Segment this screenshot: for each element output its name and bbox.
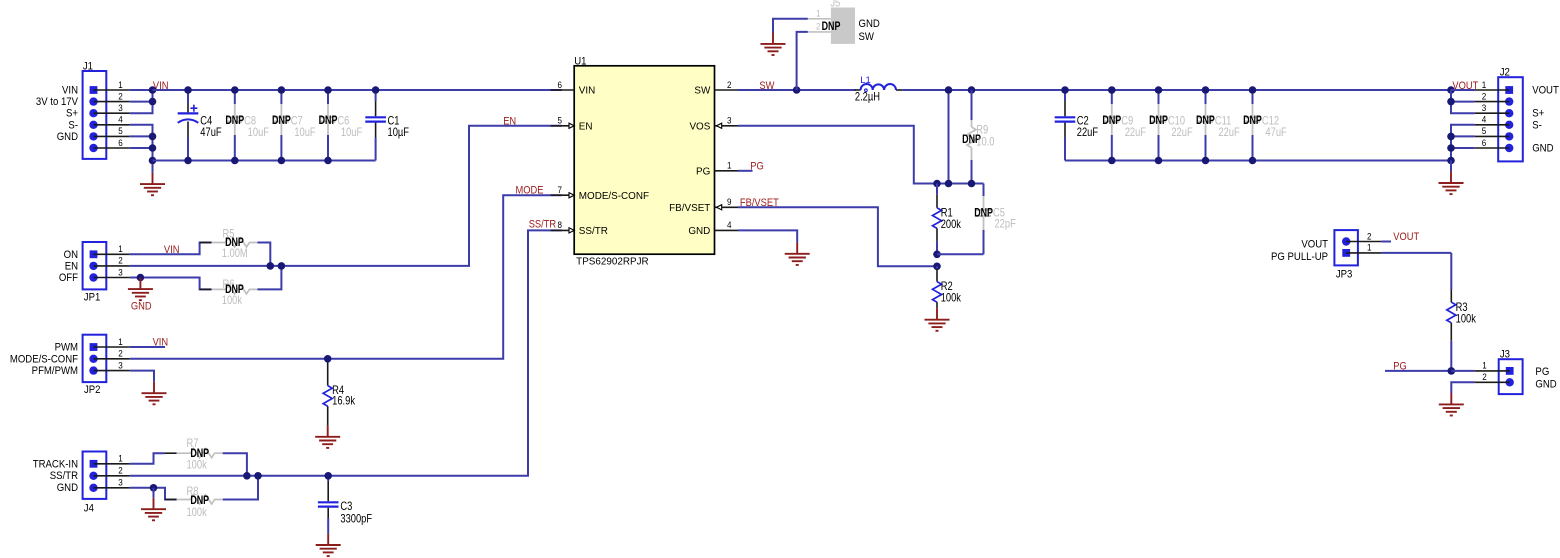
svg-text:5: 5 bbox=[118, 126, 123, 137]
svg-text:J1: J1 bbox=[83, 61, 93, 73]
node VIN net label at JP1 bbox=[164, 244, 180, 256]
JP3 side labels VOUT / PG PULL-UP bbox=[1271, 239, 1329, 263]
ground at J4 bbox=[141, 488, 166, 521]
wire SW rail L1 to J2 bbox=[902, 89, 1475, 91]
ground at R4 bbox=[315, 425, 340, 448]
junction C6 bottom bbox=[324, 157, 332, 165]
junction FB at divider bbox=[933, 263, 941, 271]
wire U1 GND pin to ground bbox=[738, 230, 797, 242]
svg-text:1: 1 bbox=[118, 336, 123, 347]
svg-text:S+: S+ bbox=[1532, 108, 1544, 120]
svg-text:100k: 100k bbox=[186, 506, 207, 519]
svg-text:VOUT: VOUT bbox=[1301, 239, 1328, 251]
junction C9 bottom bbox=[1108, 157, 1116, 165]
svg-text:L1: L1 bbox=[860, 75, 871, 86]
svg-text:TPS62902RPJR: TPS62902RPJR bbox=[576, 256, 648, 267]
svg-text:PG: PG bbox=[696, 166, 710, 177]
svg-text:GND: GND bbox=[859, 19, 881, 31]
op-amp U1 TPS62902RPJR buck converter IC bbox=[551, 56, 738, 268]
wire JP2 pin3 to gnd bbox=[130, 371, 154, 382]
junction C8 bottom bbox=[231, 157, 239, 165]
svg-text:10uF: 10uF bbox=[294, 126, 316, 139]
svg-text:SW: SW bbox=[694, 85, 710, 96]
junction C3 at SS/TR row bbox=[324, 472, 332, 480]
svg-text:GND: GND bbox=[1535, 379, 1557, 391]
svg-text:100k: 100k bbox=[186, 459, 207, 472]
svg-text:S-: S- bbox=[1532, 120, 1542, 132]
wire J1 pins 4-6 tie to GND rail bbox=[130, 125, 153, 161]
node VOUT net label at JP3 bbox=[1393, 231, 1419, 243]
wire JP2 pin1 VIN stub bbox=[130, 346, 165, 348]
svg-text:4: 4 bbox=[727, 220, 732, 231]
resistor R8 100k (DNP) bbox=[165, 476, 258, 519]
capacitor C1 10uF bbox=[365, 90, 409, 161]
svg-text:22uF: 22uF bbox=[1171, 126, 1193, 139]
wire J1 pins 2-3 tie to VIN bbox=[130, 90, 153, 113]
svg-text:10µF: 10µF bbox=[388, 126, 410, 139]
svg-text:100k: 100k bbox=[222, 294, 243, 307]
svg-text:SS/TR: SS/TR bbox=[50, 470, 79, 482]
svg-text:JP3: JP3 bbox=[1336, 269, 1353, 281]
svg-text:VOUT: VOUT bbox=[1532, 85, 1559, 97]
svg-text:DNP: DNP bbox=[1102, 114, 1121, 128]
svg-text:GND: GND bbox=[1532, 143, 1554, 155]
capacitor C9 22uF (DNP) bbox=[1102, 90, 1146, 161]
svg-text:PFM/PWM: PFM/PWM bbox=[32, 365, 78, 377]
svg-text:GND: GND bbox=[57, 131, 79, 143]
junction SW at J5 branch bbox=[793, 86, 801, 94]
ground at R2 bbox=[925, 308, 950, 331]
connector JP2 (MODE jumper) bbox=[83, 335, 130, 397]
junction C11 top bbox=[1202, 86, 1210, 94]
svg-text:6: 6 bbox=[558, 79, 563, 90]
connector JP3 (PG pull-up jumper) bbox=[1334, 230, 1381, 281]
svg-text:2: 2 bbox=[118, 91, 123, 102]
capacitor C11 22uF (DNP) bbox=[1196, 90, 1240, 161]
capacitor C2 22uF bbox=[1055, 90, 1099, 161]
resistor R7 100k (DNP) bbox=[165, 437, 247, 476]
node VOUT net label bbox=[1452, 80, 1478, 92]
svg-text:VOS: VOS bbox=[689, 121, 710, 132]
wire JP3 pin1 to R3 bbox=[1381, 252, 1451, 254]
resistor R5 1.00M (DNP) bbox=[200, 228, 271, 266]
wire J2 pins4-6 tie bbox=[1451, 125, 1475, 161]
svg-text:3: 3 bbox=[1482, 102, 1487, 113]
node MODE net label bbox=[516, 185, 544, 197]
resistor R3 100k bbox=[1447, 253, 1477, 371]
svg-text:10uF: 10uF bbox=[341, 126, 363, 139]
junction VOUT node bbox=[1447, 86, 1455, 94]
junction R5 to EN bbox=[267, 262, 275, 270]
wire SW rail U1 to L1 bbox=[738, 89, 856, 91]
wire J5 pin1 to ground bbox=[773, 19, 808, 33]
capacitor C10 22uF (DNP) bbox=[1149, 90, 1193, 161]
node PG net label at J3 bbox=[1393, 361, 1407, 373]
svg-text:SS/TR: SS/TR bbox=[579, 226, 608, 237]
wire FB/VSET from U1 to divider mid bbox=[738, 207, 937, 266]
svg-text:DNP: DNP bbox=[1149, 114, 1168, 128]
wire U1 PG stub bbox=[738, 170, 753, 172]
svg-text:3: 3 bbox=[118, 360, 123, 371]
node VIN net label bbox=[153, 80, 169, 92]
svg-text:3300pF: 3300pF bbox=[340, 512, 372, 525]
svg-text:GND: GND bbox=[57, 482, 79, 494]
svg-text:22uF: 22uF bbox=[1125, 126, 1147, 139]
resistor R2 100k bbox=[933, 266, 962, 308]
svg-text:100k: 100k bbox=[941, 292, 962, 305]
junction R6 to EN bbox=[278, 262, 286, 270]
junction J1 pin2 bbox=[149, 98, 157, 106]
svg-text:3: 3 bbox=[727, 115, 732, 126]
wire VOS from U1 to divider bbox=[738, 126, 984, 184]
junction J2 pin2 bbox=[1447, 98, 1455, 106]
capacitor C3 3300pF bbox=[318, 476, 373, 534]
svg-text:2: 2 bbox=[727, 79, 732, 90]
wire VIN top rail bbox=[153, 89, 562, 91]
J1 side labels VIN / 3V to 17V / S+ / S- / GND bbox=[36, 85, 79, 143]
node PG net label at U1 bbox=[750, 161, 764, 173]
svg-text:2.2µH: 2.2µH bbox=[855, 91, 880, 104]
svg-text:10uF: 10uF bbox=[248, 126, 270, 139]
svg-text:DNP: DNP bbox=[1196, 114, 1215, 128]
junction output gnd at J2 bbox=[1447, 157, 1455, 165]
svg-text:DNP: DNP bbox=[319, 114, 338, 128]
wire J1 pin1 to VIN node bbox=[130, 89, 153, 91]
svg-text:SW: SW bbox=[859, 31, 875, 43]
wire C5 bottom link bbox=[937, 253, 984, 255]
capacitor C7 10uF (DNP) bbox=[272, 90, 316, 161]
wire VOUT sense drop bbox=[948, 90, 950, 184]
resistor R6 100k (DNP) bbox=[200, 266, 282, 307]
svg-text:DNP: DNP bbox=[1243, 114, 1262, 128]
junction J1 pin6 bbox=[149, 144, 157, 152]
svg-text:2: 2 bbox=[118, 255, 123, 266]
junction C7 bottom bbox=[278, 157, 286, 165]
svg-text:22uF: 22uF bbox=[1077, 126, 1099, 139]
connector JP1 (EN jumper) bbox=[83, 242, 130, 304]
svg-text:FB/VSET: FB/VSET bbox=[669, 203, 710, 214]
svg-text:VIN: VIN bbox=[62, 85, 78, 97]
svg-text:2: 2 bbox=[816, 21, 821, 32]
junction R1 top node bbox=[933, 180, 941, 188]
JP2 side labels PWM / MODE/S-CONF / PFM/PWM bbox=[10, 342, 78, 377]
svg-text:DNP: DNP bbox=[225, 114, 244, 128]
wire JP3 pin2 VOUT stub bbox=[1381, 241, 1391, 243]
junction sense bottom node bbox=[945, 180, 953, 188]
svg-text:4: 4 bbox=[118, 114, 123, 125]
svg-text:OFF: OFF bbox=[59, 273, 78, 285]
svg-text:PG PULL-UP: PG PULL-UP bbox=[1271, 251, 1328, 263]
ground at J1 bbox=[140, 161, 165, 196]
svg-text:TRACK-IN: TRACK-IN bbox=[33, 459, 78, 471]
svg-text:2: 2 bbox=[118, 465, 123, 476]
J2 side labels VOUT / S+ / S- / GND bbox=[1532, 85, 1559, 155]
capacitor C8 10uF (DNP) bbox=[225, 90, 269, 161]
junction R7 to SS/TR bbox=[243, 472, 251, 480]
svg-text:S-: S- bbox=[68, 120, 78, 132]
svg-text:3: 3 bbox=[118, 477, 123, 488]
J3 side labels PG / GND bbox=[1535, 366, 1557, 390]
svg-text:8: 8 bbox=[558, 220, 563, 231]
connector J2 (output header) bbox=[1475, 67, 1523, 162]
ground at J2 bbox=[1439, 161, 1464, 195]
inductor L1 2.2uH bbox=[855, 75, 903, 104]
capacitor C6 10uF (DNP) bbox=[319, 90, 363, 161]
ground at J3 bbox=[1439, 393, 1464, 416]
wire JP1 pin1 to R5 bbox=[130, 243, 212, 255]
svg-text:DNP: DNP bbox=[822, 20, 841, 34]
svg-text:2: 2 bbox=[1482, 91, 1487, 102]
svg-text:GND: GND bbox=[131, 301, 152, 313]
junction R9 top at SW rail bbox=[968, 86, 976, 94]
svg-text:SS/TR: SS/TR bbox=[529, 219, 556, 231]
svg-text:J5: J5 bbox=[830, 0, 840, 10]
svg-text:1: 1 bbox=[118, 243, 123, 254]
junction C4 top bbox=[184, 86, 192, 94]
junction C10 top bbox=[1155, 86, 1163, 94]
svg-text:200k: 200k bbox=[941, 218, 962, 231]
J4 side labels TRACK-IN / SS/TR / GND bbox=[33, 459, 79, 495]
connector J5 (DNP sync/gnd header) bbox=[808, 0, 880, 44]
junction C12 bottom bbox=[1249, 157, 1257, 165]
ground at J5 bbox=[761, 33, 786, 56]
svg-text:3: 3 bbox=[118, 102, 123, 113]
node GND net label at JP1 bbox=[131, 301, 152, 313]
svg-text:PG: PG bbox=[1535, 366, 1549, 378]
wire J5 pin2 to SW bbox=[797, 32, 808, 90]
node SS/TR net label bbox=[529, 219, 556, 231]
ground at U1 GND bbox=[785, 242, 810, 265]
wire EN row JP1 pin2 to U1 EN bbox=[130, 126, 562, 266]
junction PG node bbox=[1448, 367, 1456, 375]
junction C1 top bbox=[372, 86, 380, 94]
junction input gnd rail at J1 bbox=[149, 157, 157, 165]
svg-text:22uF: 22uF bbox=[1218, 126, 1240, 139]
svg-text:1.00M: 1.00M bbox=[222, 247, 248, 260]
svg-text:1: 1 bbox=[727, 160, 732, 171]
junction C8 top bbox=[231, 86, 239, 94]
svg-text:J2: J2 bbox=[1500, 67, 1510, 79]
svg-text:5: 5 bbox=[1482, 126, 1487, 137]
svg-text:16.9k: 16.9k bbox=[332, 394, 355, 407]
wire J3 pin2 to gnd bbox=[1451, 382, 1474, 393]
svg-text:3V to 17V: 3V to 17V bbox=[36, 96, 78, 108]
wire JP1 pin3 to gnd and R6 bbox=[130, 278, 212, 290]
svg-text:2: 2 bbox=[1367, 231, 1372, 242]
svg-text:DNP: DNP bbox=[272, 114, 291, 128]
wire SS/TR row J4 pin2 to U1 SS/TR bbox=[130, 230, 562, 475]
wire input ground rail bbox=[153, 160, 376, 162]
svg-text:FB/VSET: FB/VSET bbox=[740, 197, 779, 209]
junction sense at SW rail bbox=[945, 86, 953, 94]
svg-text:ON: ON bbox=[64, 249, 78, 261]
svg-text:1: 1 bbox=[1367, 242, 1372, 253]
junction R9 bottom node bbox=[968, 180, 976, 188]
svg-text:EN: EN bbox=[579, 121, 593, 132]
resistor R9 10.0 (DNP) bbox=[962, 90, 994, 184]
svg-text:4: 4 bbox=[1482, 114, 1487, 125]
svg-text:6: 6 bbox=[1482, 137, 1487, 148]
connector J3 (PG header) bbox=[1475, 349, 1523, 394]
wire MODE row JP2 pin2 to U1 MODE bbox=[130, 195, 562, 359]
junction C12 top bbox=[1249, 86, 1257, 94]
svg-text:VIN: VIN bbox=[579, 85, 595, 96]
node SW net label bbox=[759, 80, 774, 92]
wire output ground rail bbox=[1065, 160, 1451, 162]
svg-text:DNP: DNP bbox=[974, 206, 993, 220]
JP1 side labels ON / EN / OFF bbox=[59, 249, 78, 284]
wire PG row bbox=[1385, 370, 1451, 372]
svg-text:VIN: VIN bbox=[153, 337, 169, 349]
resistor R4 16.9k bbox=[323, 359, 355, 426]
wire PG to J3 pin1 bbox=[1451, 370, 1474, 372]
wire J2 pins2-3 tie bbox=[1451, 90, 1475, 113]
svg-text:2: 2 bbox=[118, 348, 123, 359]
wire J2 pin1 stub bbox=[1451, 89, 1475, 91]
svg-text:EN: EN bbox=[503, 116, 516, 128]
svg-text:JP2: JP2 bbox=[84, 384, 101, 396]
svg-text:22pF: 22pF bbox=[994, 218, 1016, 231]
svg-text:1: 1 bbox=[1482, 79, 1487, 90]
capacitor C12 47uF (DNP) bbox=[1243, 90, 1287, 161]
wire J4 pin3 to gnd and R8 bbox=[130, 488, 177, 500]
capacitor C4 47uF (polarized) bbox=[178, 90, 222, 161]
svg-text:1: 1 bbox=[118, 79, 123, 90]
svg-text:JP1: JP1 bbox=[84, 292, 101, 304]
junction C11 bottom bbox=[1202, 157, 1210, 165]
svg-text:10.0: 10.0 bbox=[976, 136, 994, 149]
junction R1 bottom bbox=[933, 251, 941, 259]
node EN net label bbox=[503, 116, 516, 128]
svg-text:U1: U1 bbox=[574, 56, 586, 68]
svg-text:MODE/S-CONF: MODE/S-CONF bbox=[10, 354, 78, 366]
svg-text:100k: 100k bbox=[1456, 312, 1477, 325]
svg-text:PG: PG bbox=[750, 161, 764, 173]
junction R4 at MODE row bbox=[324, 355, 332, 363]
junction J4 pin3 gnd tap bbox=[150, 484, 158, 492]
svg-text:EN: EN bbox=[65, 261, 78, 273]
resistor R1 200k bbox=[933, 184, 962, 255]
ground at JP2 bbox=[142, 382, 167, 405]
connector J4 (tracking header) bbox=[83, 452, 130, 515]
junction R8 to SS/TR bbox=[254, 472, 262, 480]
svg-text:7: 7 bbox=[558, 184, 563, 195]
ground at JP1 bbox=[128, 278, 153, 301]
svg-text:PWM: PWM bbox=[55, 342, 78, 354]
svg-text:6: 6 bbox=[118, 137, 123, 148]
junction J2 pin5 bbox=[1447, 133, 1455, 141]
ground at C3 bbox=[316, 534, 341, 557]
junction J2 pin6 bbox=[1447, 144, 1455, 152]
svg-text:47uF: 47uF bbox=[1265, 126, 1287, 139]
svg-text:GND: GND bbox=[688, 226, 710, 237]
svg-text:47uF: 47uF bbox=[200, 126, 222, 139]
svg-text:1: 1 bbox=[816, 8, 821, 19]
capacitor C5 22pF (DNP) bbox=[974, 184, 1016, 255]
junction JP1 pin3 gnd tap bbox=[137, 274, 145, 282]
junction J1 pin5 bbox=[149, 133, 157, 141]
svg-text:5: 5 bbox=[558, 115, 563, 126]
node FB/VSET net label bbox=[740, 197, 779, 209]
junction C10 bottom bbox=[1155, 157, 1163, 165]
connector J1 (input header) bbox=[83, 61, 130, 159]
svg-text:VOUT: VOUT bbox=[1393, 231, 1419, 243]
svg-text:1: 1 bbox=[118, 453, 123, 464]
svg-text:1: 1 bbox=[1482, 360, 1487, 371]
junction C4 bottom bbox=[184, 157, 192, 165]
svg-text:J4: J4 bbox=[84, 503, 94, 515]
svg-text:S+: S+ bbox=[66, 108, 78, 120]
junction C9 top bbox=[1108, 86, 1116, 94]
svg-text:MODE: MODE bbox=[516, 185, 544, 197]
junction VIN node bbox=[149, 86, 157, 94]
svg-text:2: 2 bbox=[1482, 371, 1487, 382]
junction C2 top bbox=[1061, 86, 1069, 94]
node VIN net label at JP2 bbox=[153, 337, 169, 349]
svg-text:3: 3 bbox=[118, 267, 123, 278]
junction C7 top bbox=[278, 86, 286, 94]
wire J4 pin1 to R7 bbox=[130, 453, 165, 464]
junction C6 top bbox=[324, 86, 332, 94]
svg-text:J3: J3 bbox=[1500, 349, 1510, 361]
svg-text:9: 9 bbox=[727, 196, 732, 207]
svg-text:MODE/S-CONF: MODE/S-CONF bbox=[579, 191, 649, 202]
